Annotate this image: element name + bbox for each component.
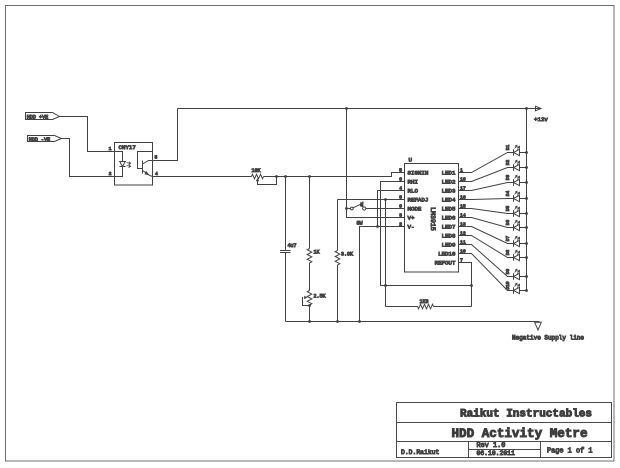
wire +12v to V+ [347,209,405,218]
svg-text:Negative Supply line: Negative Supply line [512,335,584,342]
svg-text:D3: D3 [505,175,511,181]
svg-text:Raikut Instructables: Raikut Instructables [460,409,592,421]
wire HDD+VE to opto pin1 [60,117,115,152]
wire REFADJ down to 1K8 [385,200,387,307]
internal LED [115,152,123,177]
svg-text:D5: D5 [505,206,511,212]
svg-text:RLO: RLO [408,188,419,195]
junction top rail / switch drop [345,107,348,110]
wire opto pin4 to LM3915 SIGNIN [153,173,405,177]
svg-text:2.5K: 2.5K [314,293,326,299]
svg-text:D9: D9 [505,269,511,275]
LED D8 [459,236,528,261]
svg-text:9: 9 [399,203,402,209]
svg-text:LM3915: LM3915 [429,207,436,231]
svg-text:D8: D8 [505,250,511,256]
negative supply arrow [535,322,542,330]
svg-text:D4: D4 [505,191,511,197]
svg-text:LED6: LED6 [442,215,456,222]
LED D9 [459,245,528,280]
svg-text:LED2: LED2 [442,179,456,186]
wire REFOUT down [459,263,472,307]
svg-text:10K: 10K [252,168,261,174]
LED D7 [459,227,528,247]
LED D6 [459,218,528,231]
optocoupler U CNY17 [109,143,158,186]
wire RHI to REFOUT link [381,182,472,286]
svg-text:Page 1 of 1: Page 1 of 1 [547,447,593,455]
svg-text:D1: D1 [505,145,511,151]
svg-text:3.9K: 3.9K [341,251,353,257]
svg-text:U: U [409,156,413,163]
svg-text:V-: V- [408,224,415,231]
svg-text:4: 4 [155,171,158,177]
svg-text:+12v: +12v [534,116,548,123]
svg-text:D10: D10 [505,281,511,289]
svg-text:2: 2 [109,171,112,177]
wire top rail down to switch [346,109,348,209]
svg-text:1K8: 1K8 [420,299,429,305]
svg-text:LED3: LED3 [442,188,456,195]
resistor 1K8 [386,299,472,309]
svg-text:D.D.Raikut: D.D.Raikut [401,449,440,456]
trimmer R 2.5K [303,291,326,306]
svg-text:LED5: LED5 [442,206,456,213]
connector tag HDD -VE [28,136,62,144]
wire switch to MODE [366,208,405,210]
svg-text:5: 5 [155,155,158,161]
internal phototransistor [138,152,153,169]
LED D4 [459,191,528,202]
wire V- down to bottom rail [360,227,405,322]
wire LED anode rail [526,109,528,291]
wire 2.5K to bottom rail [309,305,311,322]
wire opto pin5 up to +12v rail [153,109,178,161]
resistor 1K [307,177,319,263]
wire RLO to V- [378,191,405,227]
svg-text:S1: S1 [361,201,365,206]
+12v supply arrow [536,106,542,111]
connector tag HDD +VE [26,113,60,121]
svg-text:LED8: LED8 [442,233,456,240]
svg-text:5: 5 [399,167,402,173]
svg-text:HDD -VE: HDD -VE [29,137,50,143]
svg-text:CNY17: CNY17 [119,144,137,151]
svg-text:3: 3 [399,212,402,218]
svg-text:D7: D7 [505,236,511,242]
wire HDD-VE to opto pin2 [62,139,115,177]
LED D1 [459,145,528,173]
wire REFADJ to 3.9K [338,199,405,201]
svg-text:D2: D2 [505,160,511,166]
LED emission arrows [127,162,131,165]
svg-text:Rev 1.0: Rev 1.0 [477,442,506,450]
svg-text:1K: 1K [314,249,320,255]
wire negative supply rail [286,321,540,323]
LED D2 [459,160,528,182]
wire +12v top rail [178,108,541,110]
svg-text:LED1: LED1 [442,170,456,177]
trimmer R 10K [252,168,277,185]
svg-text:LED10: LED10 [438,251,456,258]
LED D5 [459,206,528,217]
svg-text:LED7: LED7 [442,224,456,231]
svg-text:D6: D6 [505,220,511,226]
svg-text:LED9: LED9 [442,242,456,249]
switch S1 SW [347,201,366,226]
svg-text:HDD +VE: HDD +VE [27,115,48,121]
svg-text:RHI: RHI [408,179,418,186]
svg-text:MODE: MODE [408,206,422,213]
svg-text:LED4: LED4 [442,197,456,204]
svg-text:V+: V+ [408,215,415,222]
svg-text:SIGNIN: SIGNIN [408,170,429,177]
title block [397,403,612,458]
svg-text:06.10.2011: 06.10.2011 [477,450,516,457]
capacitor 4u7 [280,177,297,322]
svg-text:SW: SW [357,220,363,226]
svg-text:4u7: 4u7 [288,243,297,249]
LED D10 [459,254,528,294]
junction top rail / LED rail [525,107,528,110]
svg-text:REFOUT: REFOUT [435,260,456,267]
wire 1K to 2.5K [309,263,311,291]
resistor 3.9K [335,200,353,322]
svg-text:1: 1 [109,146,112,152]
LED D3 [459,175,528,191]
IC U LM3915 [399,156,466,272]
svg-text:REFADJ: REFADJ [408,197,429,204]
svg-text:HDD Activity Metre: HDD Activity Metre [451,427,587,441]
